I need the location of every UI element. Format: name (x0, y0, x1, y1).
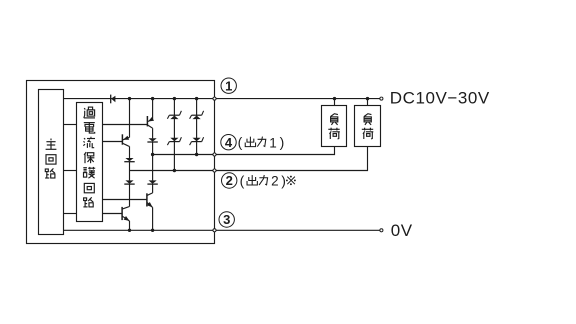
svg-text:(: ( (238, 134, 243, 150)
wire base lead Q3 (103, 213, 123, 215)
wire 0V rail to terminal 3 (64, 229, 382, 231)
transistor Q2 PNP (147, 99, 154, 139)
load box 1 (fuka) (322, 106, 347, 147)
zener pair ZD1/ZD2 back-to-back (167, 99, 181, 171)
main circuit block (shukairo) (39, 90, 64, 235)
wire base lead Q4 (103, 199, 147, 201)
wire output1 line terminal 4 (153, 147, 335, 155)
terminal label circled 4 + output1 (221, 134, 284, 150)
svg-text:): ) (281, 172, 286, 188)
wire base lead Q2 (103, 124, 148, 126)
svg-text:4: 4 (225, 135, 233, 150)
wire stub main-to-protection 2 (64, 170, 77, 172)
svg-text:1: 1 (225, 78, 232, 93)
terminal label circled 3 (219, 212, 234, 227)
diode D5 series on +V rail (pointing left) (111, 95, 116, 104)
terminal circles (213, 97, 383, 232)
wire +V rail to terminal 1 (64, 98, 382, 100)
load box 2 (fuka) (355, 106, 381, 147)
diode D3 (147, 138, 157, 154)
wire load1 top lead (334, 99, 336, 106)
diode D2 (124, 171, 134, 207)
diode D1 (124, 158, 134, 171)
svg-text:2: 2 (271, 174, 279, 189)
svg-text:DC10V−30V: DC10V−30V (390, 89, 490, 108)
transistor Q1 PNP (122, 99, 129, 158)
diode D4 (147, 155, 157, 193)
wire output2 line terminal 2 (130, 147, 368, 171)
overcurrent protection block (kadenryu hogokairo) (77, 103, 103, 222)
svg-text:3: 3 (223, 212, 230, 227)
wire load2 top lead (367, 99, 369, 106)
svg-text:): ) (280, 134, 285, 150)
svg-text:1: 1 (269, 135, 277, 150)
junction dots (128, 97, 369, 232)
wire stub main-to-protection 1 (64, 124, 77, 126)
svg-text:(: ( (240, 172, 245, 188)
terminal label circled 1 (221, 78, 236, 93)
wire stub main-to-protection 3 (64, 213, 77, 215)
sensor outline box (27, 81, 215, 244)
svg-text:2: 2 (226, 173, 233, 188)
zener pair ZD3/ZD4 back-to-back (190, 99, 204, 155)
transistor Q3 NPN (122, 207, 129, 231)
svg-text:0V: 0V (391, 221, 413, 240)
transistor Q4 NPN (147, 193, 153, 230)
terminal label circled 2 + output2 + reference mark (222, 172, 296, 188)
wire base lead Q1 (103, 141, 123, 143)
